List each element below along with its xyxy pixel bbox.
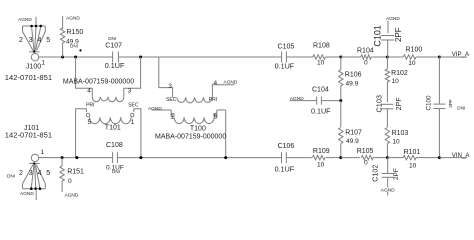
svg-text:C108: C108 (106, 142, 123, 149)
capacitor C104 (290, 86, 341, 115)
svg-text:10: 10 (392, 139, 400, 146)
resistor R109 (312, 148, 329, 169)
svg-text:MABA-007159-000000: MABA-007159-000000 (63, 78, 134, 85)
svg-text:0.1UF: 0.1UF (275, 165, 295, 174)
svg-text:4: 4 (214, 80, 218, 87)
svg-text:2PF: 2PF (395, 97, 403, 111)
svg-text:DNI: DNI (112, 169, 120, 174)
svg-text:R104: R104 (357, 47, 374, 54)
svg-text:4: 4 (38, 37, 42, 44)
svg-text:3: 3 (29, 37, 33, 44)
svg-text:10: 10 (408, 60, 416, 67)
svg-text:1: 1 (42, 60, 46, 67)
wire node A to R104 (341, 56, 361, 58)
svg-text:4: 4 (38, 170, 42, 177)
svg-text:3: 3 (29, 170, 33, 177)
wire R109 to node B (326, 157, 341, 159)
svg-text:R103: R103 (392, 130, 409, 137)
svg-text:10: 10 (409, 163, 417, 170)
node B junction (339, 156, 342, 159)
svg-text:C101: C101 (372, 25, 382, 47)
svg-text:5: 5 (88, 119, 92, 126)
connector J100 (5, 25, 52, 82)
svg-text:DNI: DNI (7, 174, 15, 179)
svg-text:C107: C107 (105, 43, 122, 50)
junction T101-pin3/top-rail (139, 56, 142, 59)
node E junction (386, 156, 389, 159)
wire R108 to node A (325, 56, 340, 58)
svg-text:C104: C104 (312, 86, 329, 93)
wire node E to R101 (387, 157, 403, 159)
svg-text:0: 0 (68, 178, 72, 185)
svg-text:DNI: DNI (108, 36, 116, 41)
wire C105 to R108 (286, 56, 313, 58)
connector J101 (5, 125, 52, 190)
capacitor C108 (106, 142, 124, 174)
svg-text:5: 5 (46, 37, 50, 44)
svg-text:R100: R100 (406, 47, 423, 54)
resistor R107 (339, 101, 362, 158)
svg-text:R106: R106 (345, 72, 362, 79)
svg-text:VIN_A: VIN_A (452, 152, 471, 159)
wire C106 to R109 (286, 157, 312, 159)
svg-text:SEC: SEC (166, 97, 177, 103)
svg-text:AGND: AGND (66, 16, 80, 22)
svg-text:R102: R102 (391, 70, 408, 77)
junction T101-pin5/bottom-rail (75, 156, 78, 159)
resistor R151 (60, 158, 84, 192)
svg-text:C100: C100 (425, 95, 432, 111)
svg-text:3: 3 (168, 83, 172, 90)
resistor R108 (313, 43, 330, 67)
svg-text:5: 5 (214, 113, 218, 120)
svg-text:0.1UF: 0.1UF (275, 62, 295, 71)
junction R151/bottom-rail (61, 156, 64, 159)
svg-text:2: 2 (19, 170, 23, 177)
capacitor C103 (375, 95, 403, 112)
svg-text:DNI: DNI (70, 44, 78, 49)
svg-text:R150: R150 (67, 29, 84, 36)
svg-text:R105: R105 (357, 148, 374, 155)
svg-text:2PF: 2PF (448, 99, 453, 108)
wire R105 to node E (373, 157, 387, 159)
resistor R104 (357, 47, 374, 66)
svg-text:1: 1 (41, 149, 45, 156)
svg-text:SEC: SEC (128, 102, 139, 108)
resistor R106 (339, 57, 362, 101)
svg-text:142-0701-851: 142-0701-851 (5, 130, 52, 139)
transformer T101 (63, 57, 141, 158)
svg-text:C102: C102 (371, 165, 380, 182)
svg-text:PRI: PRI (86, 102, 94, 108)
junction T101-pin4/top-rail (74, 56, 77, 59)
wire node B to R105 (341, 157, 361, 159)
svg-text:142-0701-851: 142-0701-851 (5, 73, 52, 82)
svg-text:AGND: AGND (65, 193, 79, 199)
svg-text:AGND: AGND (18, 17, 32, 23)
wire top rail J100 to C107 (39, 56, 113, 58)
junction T101-pin1/bottom-rail (139, 156, 142, 159)
svg-text:AGND: AGND (20, 191, 34, 197)
resistor R102 (385, 57, 408, 102)
svg-text:3: 3 (128, 88, 132, 95)
node M junction (C104/R106/R107) (339, 99, 342, 102)
svg-text:J100: J100 (26, 64, 41, 71)
net VIN_A (439, 157, 467, 159)
capacitor C100 (425, 57, 465, 158)
svg-text:10: 10 (317, 60, 325, 67)
resistor R105 (357, 148, 374, 167)
svg-text:0.1UF: 0.1UF (311, 107, 331, 116)
svg-text:0: 0 (364, 160, 368, 167)
wire R101 to node F (416, 157, 439, 159)
junction T100-pin5/bottom-rail (224, 156, 227, 159)
svg-text:MABA-007159-000000: MABA-007159-000000 (155, 134, 226, 141)
svg-text:R101: R101 (404, 149, 421, 156)
svg-text:T100: T100 (190, 125, 206, 132)
capacitor C101 (372, 25, 402, 57)
svg-text:AGND: AGND (290, 96, 304, 102)
resistor R101 (403, 149, 420, 170)
net VIP_A (439, 56, 467, 58)
svg-text:C103: C103 (375, 95, 384, 112)
svg-text:R109: R109 (313, 148, 330, 155)
node F junction (438, 156, 441, 159)
svg-text:T101: T101 (105, 125, 121, 132)
svg-text:5: 5 (46, 170, 50, 177)
node A junction (339, 56, 342, 59)
svg-text:AGND: AGND (148, 106, 162, 112)
node D junction (438, 56, 441, 59)
svg-text:2PF: 2PF (393, 168, 400, 180)
svg-text:10: 10 (392, 78, 400, 85)
svg-text:1: 1 (131, 119, 135, 126)
svg-text:2: 2 (19, 37, 23, 44)
svg-text:0.1UF: 0.1UF (105, 61, 125, 70)
wire R104 to node C (371, 56, 387, 58)
wire top rail C107 to C105 (119, 56, 282, 58)
svg-text:DNI: DNI (457, 106, 465, 111)
junction R150/top-rail (61, 56, 64, 59)
svg-text:C105: C105 (278, 44, 295, 51)
svg-text:PRI: PRI (209, 97, 217, 103)
svg-text:R151: R151 (67, 169, 84, 176)
capacitor C107 (105, 36, 125, 70)
svg-text:R108: R108 (313, 43, 330, 50)
wire bottom rail J101 to C108 (39, 157, 113, 159)
resistor R103 (385, 109, 408, 158)
capacitor C105 (275, 44, 295, 71)
svg-text:VIP_A: VIP_A (452, 51, 470, 58)
resistor R150 (60, 28, 83, 57)
node C junction (386, 56, 389, 59)
svg-text:2PF: 2PF (394, 27, 403, 42)
resistor R100 (403, 47, 422, 68)
svg-text:C106: C106 (278, 143, 295, 150)
capacitor C102 (371, 158, 401, 188)
capacitor C106 (275, 143, 295, 174)
wire R100 to node D (416, 56, 439, 58)
svg-text:4: 4 (87, 88, 91, 95)
svg-text:R107: R107 (345, 129, 362, 136)
svg-text:49.9: 49.9 (346, 81, 359, 88)
wire node C to R100 (387, 56, 403, 58)
svg-text:49.9: 49.9 (346, 138, 359, 145)
transformer T100 (152, 57, 227, 158)
svg-text:0: 0 (364, 60, 368, 67)
svg-text:1: 1 (170, 114, 174, 121)
svg-text:10: 10 (317, 162, 325, 169)
wire bottom rail C108 to C106 (117, 157, 281, 159)
